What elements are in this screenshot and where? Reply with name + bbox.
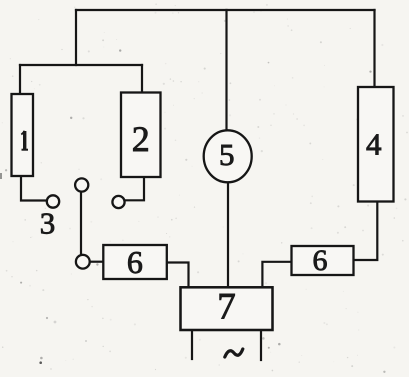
svg-text:4: 4: [366, 127, 382, 162]
svg-text:3: 3: [40, 206, 56, 241]
svg-text:2: 2: [132, 119, 150, 159]
svg-text:6: 6: [127, 244, 143, 280]
svg-text:5: 5: [219, 137, 235, 172]
svg-text:7: 7: [217, 287, 236, 328]
svg-text:6: 6: [313, 244, 328, 277]
